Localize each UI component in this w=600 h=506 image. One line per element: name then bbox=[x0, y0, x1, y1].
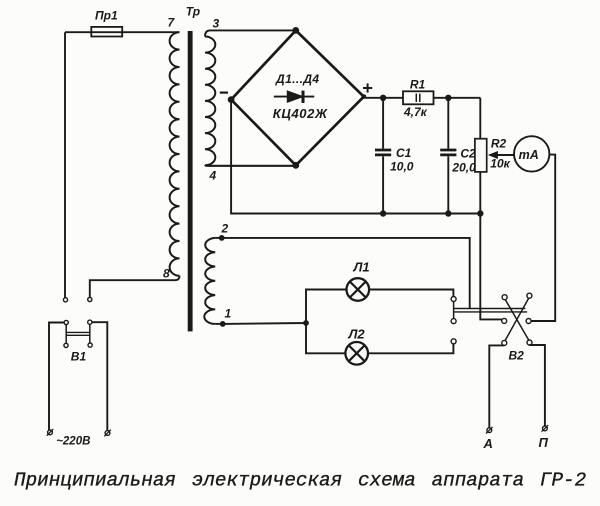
svg-text:4,7к: 4,7к bbox=[403, 105, 428, 119]
svg-text:В2: В2 bbox=[509, 349, 525, 363]
svg-text:3: 3 bbox=[213, 17, 220, 31]
svg-text:В1: В1 bbox=[71, 350, 87, 364]
svg-text:А: А bbox=[483, 436, 493, 451]
svg-text:2: 2 bbox=[221, 222, 229, 236]
svg-text:1: 1 bbox=[225, 307, 232, 321]
svg-text:8: 8 bbox=[163, 267, 170, 281]
svg-text:Д1...Д4: Д1...Д4 bbox=[275, 72, 319, 86]
svg-text:10,0: 10,0 bbox=[390, 160, 414, 174]
svg-text:20,0: 20,0 bbox=[451, 160, 476, 174]
svg-text:Л2: Л2 bbox=[348, 326, 366, 341]
svg-text:Л1: Л1 bbox=[353, 260, 370, 275]
svg-text:Тр: Тр bbox=[186, 5, 200, 19]
svg-text:10к: 10к bbox=[490, 157, 510, 171]
svg-text:mA: mA bbox=[519, 148, 539, 162]
svg-text:Принципиальная электрическая с: Принципиальная электрическая схема аппар… bbox=[14, 470, 586, 492]
svg-text:~220В: ~220В bbox=[56, 435, 90, 447]
svg-text:C2: C2 bbox=[460, 147, 476, 161]
svg-text:C1: C1 bbox=[396, 146, 412, 160]
svg-text:7: 7 bbox=[168, 16, 176, 30]
svg-text:Пр1: Пр1 bbox=[95, 9, 118, 23]
svg-text:П: П bbox=[539, 435, 549, 450]
svg-text:КЦ402Ж: КЦ402Ж bbox=[273, 106, 328, 121]
svg-text:4: 4 bbox=[209, 169, 217, 183]
svg-text:R2: R2 bbox=[491, 137, 507, 151]
svg-text:R1: R1 bbox=[410, 77, 426, 91]
